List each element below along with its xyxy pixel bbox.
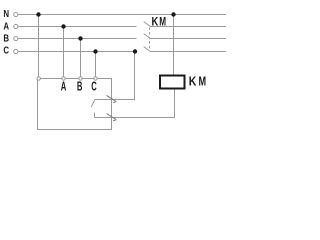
wire C drop to box bbox=[95, 52, 97, 79]
contactor KM main contact blade phase C bbox=[144, 47, 151, 52]
box input terminal circle C bbox=[94, 77, 97, 80]
wire B line right segment bbox=[150, 38, 226, 40]
svg-text:N: N bbox=[3, 9, 9, 20]
wire B drop to box bbox=[80, 39, 82, 79]
terminal circle A bbox=[14, 24, 18, 28]
node C2 junction dot (control tap) bbox=[133, 49, 137, 53]
node A junction dot bbox=[61, 24, 65, 28]
wire from box upper output contact up to C line node bbox=[95, 52, 135, 100]
wire C line left segment bbox=[19, 51, 137, 53]
svg-text:C: C bbox=[3, 46, 9, 57]
node N2 junction dot (coil feed) bbox=[171, 12, 175, 16]
controller box outline bbox=[38, 79, 112, 130]
KM coil rectangle bbox=[160, 76, 185, 89]
contactor KM main contact blade phase A bbox=[144, 22, 151, 27]
wire from N node down to KM coil bbox=[173, 15, 175, 76]
wire A drop to box bbox=[63, 27, 65, 79]
terminal circle C bbox=[14, 49, 18, 53]
wire N line left segment bbox=[19, 14, 227, 16]
relay output contact blade upper bbox=[107, 95, 116, 101]
box input terminal circle A bbox=[62, 77, 65, 80]
svg-text:A: A bbox=[61, 78, 66, 93]
contactor KM main contact blade phase B bbox=[144, 34, 151, 39]
svg-text:A: A bbox=[3, 21, 9, 32]
svg-text:K: K bbox=[189, 73, 197, 88]
node B junction dot bbox=[78, 36, 82, 40]
box input terminal circle N bbox=[37, 77, 40, 80]
terminal circle N bbox=[14, 12, 18, 16]
wire N drop to box bbox=[38, 15, 40, 79]
dashed mechanical linkage of KM contacts bbox=[149, 28, 151, 51]
wire from KM coil bottom bbox=[95, 89, 175, 118]
svg-text:K: K bbox=[152, 14, 159, 28]
terminal circle B bbox=[14, 36, 18, 40]
svg-text:B: B bbox=[3, 33, 9, 44]
node N junction dot bbox=[36, 12, 40, 16]
svg-text:C: C bbox=[91, 78, 97, 93]
node C junction dot bbox=[93, 49, 97, 53]
svg-text:B: B bbox=[77, 78, 83, 93]
wire A line left segment bbox=[19, 26, 137, 28]
svg-text:M: M bbox=[159, 14, 166, 28]
wire B line left segment bbox=[19, 38, 137, 40]
internal changeover blade bbox=[91, 100, 94, 107]
relay output contact arrow upper bbox=[113, 102, 117, 103]
internal changeover lower stub bbox=[94, 113, 96, 118]
relay output contact arrow lower bbox=[113, 120, 117, 121]
svg-text:M: M bbox=[199, 73, 207, 88]
wire C line right segment bbox=[150, 51, 226, 53]
box input terminal circle B bbox=[79, 77, 82, 80]
wire A line right segment bbox=[150, 26, 226, 28]
relay output contact blade lower bbox=[107, 114, 116, 120]
